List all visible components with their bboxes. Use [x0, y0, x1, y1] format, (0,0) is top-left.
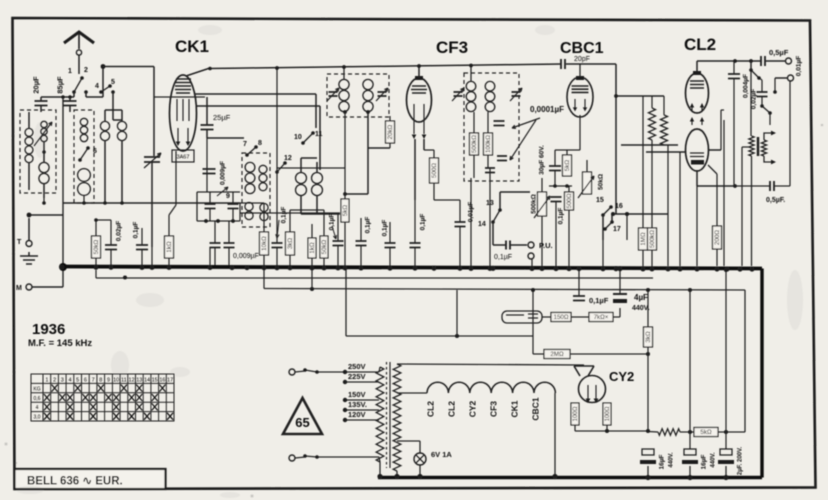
- wire heater end: [554, 393, 556, 476]
- svg-text:7kΩ×: 7kΩ×: [594, 314, 609, 321]
- wire 01b2 up: [360, 218, 362, 241]
- wire osc h168: [277, 167, 345, 169]
- svg-text:20pF: 20pF: [574, 56, 590, 63]
- tap 120V: [343, 418, 347, 422]
- bus junction x556: [553, 266, 558, 271]
- wire L7 top: [121, 110, 123, 121]
- svg-text:5kΩ: 5kΩ: [564, 160, 571, 172]
- wire tone mid2: [761, 80, 763, 92]
- capacitor 0.1 b4: [410, 243, 421, 248]
- wire 009b1 dn: [214, 248, 216, 266]
- antenna coil box: [20, 110, 56, 193]
- wire x668: [667, 145, 669, 266]
- svg-text:T: T: [17, 239, 22, 246]
- resistor 3k ps: [644, 327, 653, 347]
- wire bus drop 471: [470, 178, 472, 266]
- bus junction x111: [108, 265, 113, 270]
- node screen drop: [275, 66, 279, 70]
- svg-text:3: 3: [61, 378, 64, 384]
- wire 85uF top: [69, 97, 71, 101]
- bus junction x324: [321, 265, 326, 270]
- wire CY2 k b: [606, 425, 608, 431]
- wire tone e: [769, 113, 771, 125]
- wire tone b dn: [774, 78, 776, 92]
- wire CF3 k1: [414, 139, 416, 200]
- wire 009b2 up: [228, 221, 230, 243]
- tone switch 1: [751, 70, 759, 78]
- node 85uF: [68, 95, 72, 99]
- IFT2 primary: [470, 81, 472, 82]
- coil L7: [121, 121, 123, 122]
- wire 3k dn: [289, 255, 291, 266]
- bus junction x697: [694, 266, 699, 271]
- tuning capacitor C1: [144, 157, 160, 162]
- wire 01b1 up: [337, 214, 339, 241]
- wire OSC4 feed: [319, 106, 321, 170]
- wire mains a2: [317, 371, 345, 373]
- svg-text:500kΩ: 500kΩ: [531, 194, 538, 214]
- wire 002b up: [110, 220, 112, 245]
- wire x742: [741, 147, 743, 266]
- wire x721b: [721, 109, 724, 111]
- bus junction x210: [207, 265, 212, 270]
- wire B corner: [744, 290, 746, 432]
- svg-text:100kΩ: 100kΩ: [485, 135, 492, 153]
- resistor zig 1: [649, 108, 656, 140]
- wire x346 drop: [345, 270, 347, 336]
- svg-text:1MΩ: 1MΩ: [640, 232, 647, 246]
- node IFT1 outdot: [366, 110, 370, 114]
- bus junction x603: [600, 266, 605, 271]
- resistor 1k CK1: [165, 236, 174, 258]
- wire 01b1 dn: [337, 246, 339, 267]
- wire left rail: [62, 97, 64, 287]
- wire L2-L3: [43, 142, 45, 162]
- tube CL2 lower: [686, 129, 709, 171]
- wire sec top: [396, 363, 398, 365]
- capacitor 0.1 left: [136, 245, 148, 250]
- node padder b: [216, 219, 220, 223]
- bus junction x415: [412, 265, 417, 270]
- svg-text:0,01µF: 0,01µF: [796, 56, 803, 76]
- wire 01b4 up: [414, 200, 416, 243]
- tap 225V: [343, 380, 347, 384]
- node k a: [553, 184, 557, 188]
- svg-text:3kΩ: 3kΩ: [287, 238, 294, 250]
- ground bus: [62, 267, 762, 269]
- wire zig feed line: [616, 95, 664, 97]
- wire C1 down: [151, 162, 153, 247]
- wire tone d: [761, 97, 763, 107]
- svg-text:1936: 1936: [32, 321, 65, 338]
- coil L4: [83, 118, 85, 119]
- wire 500 up: [433, 150, 435, 158]
- wire grid line: [621, 144, 678, 146]
- resistor 100 b: [603, 403, 611, 425]
- tube CY2 top: [574, 366, 594, 376]
- wire L1 bot: [28, 163, 30, 190]
- node coil bus c: [42, 201, 46, 205]
- svg-text:30µF 60V.: 30µF 60V.: [539, 145, 546, 175]
- switch S2 lever: [101, 86, 110, 92]
- capacitor PU 0.1: [506, 241, 510, 250]
- IFT1 primary: [343, 79, 345, 80]
- IF transformer 2 box: [464, 73, 519, 181]
- svg-text:50kΩ: 50kΩ: [93, 239, 100, 254]
- node padder c: [231, 219, 235, 223]
- wire tone f: [733, 94, 735, 186]
- svg-text:100Ω: 100Ω: [572, 406, 579, 421]
- tone switch 3: [762, 106, 770, 113]
- svg-text:6: 6: [84, 378, 87, 384]
- wire bus drop 490: [489, 168, 491, 266]
- wire OSC3 down: [300, 196, 302, 214]
- svg-text:3A67: 3A67: [177, 155, 190, 161]
- wire avc line mid: [240, 212, 340, 214]
- wire padder rail bot: [197, 220, 240, 222]
- svg-text:CBC1: CBC1: [531, 397, 541, 420]
- contact 2 dot: [84, 90, 88, 94]
- wire 500k up: [651, 152, 653, 228]
- wire 30uF up: [554, 150, 556, 166]
- svg-text:0,6: 0,6: [34, 396, 41, 402]
- IFT1 arrow 1: [327, 88, 339, 101]
- wire screen drop: [276, 68, 278, 226]
- bus junction x264: [261, 265, 266, 270]
- wire CF3 top: [418, 66, 420, 78]
- wire 500 dn: [433, 183, 435, 200]
- wire IFT1 out: [367, 112, 369, 194]
- bus junction x434: [431, 266, 436, 271]
- wire L6 L7 top link: [105, 109, 122, 111]
- diode cap 1: [497, 156, 507, 161]
- wire 150-7k: [571, 316, 589, 318]
- wire bus drop 152: [151, 247, 153, 266]
- svg-text:225V: 225V: [348, 372, 366, 381]
- coil L5: [83, 168, 85, 169]
- wire 1M dn: [642, 250, 644, 266]
- oscillator coil box: [242, 153, 270, 227]
- sub-bus line B drop: [263, 270, 265, 289]
- wire 002b dn: [110, 250, 112, 267]
- wire mid h2: [239, 203, 241, 221]
- svg-text:1kΩ: 1kΩ: [166, 241, 173, 253]
- resistor 15: [308, 238, 316, 258]
- sub-bus line A: [96, 277, 653, 279]
- wire tone down a: [750, 61, 752, 70]
- IFT1 trimmer 1: [329, 92, 338, 96]
- pointer 0.0001 a: [512, 118, 540, 128]
- band switch 10-11: [303, 133, 313, 143]
- capacitor 0.1 b1: [333, 241, 344, 246]
- wire 01L dn: [141, 250, 143, 267]
- IFT2 trimmer 1: [454, 92, 463, 96]
- bus junction x717: [714, 266, 719, 271]
- wire to gang: [103, 66, 154, 68]
- wire heater start: [397, 392, 427, 394]
- svg-text:440V.: 440V.: [711, 452, 717, 467]
- wire ecap b dn: [689, 466, 691, 477]
- wire tap 150V: [345, 399, 379, 401]
- node k b: [565, 184, 569, 188]
- capacitor 20uF: [35, 101, 48, 106]
- wire prim bot drop: [379, 462, 381, 476]
- svg-text:12: 12: [129, 378, 135, 384]
- bus junction x616: [613, 266, 618, 271]
- pot arrow 50k: [578, 176, 594, 198]
- node zig feed: [614, 94, 618, 98]
- wire 2M right: [570, 353, 648, 355]
- wire filt a: [648, 431, 658, 434]
- transformer primary: [376, 367, 384, 462]
- wire padder rail top: [197, 191, 240, 193]
- pointer 0.1 left: [276, 220, 279, 238]
- bus junction x247: [244, 265, 249, 270]
- svg-text:6V 1A: 6V 1A: [431, 450, 452, 459]
- node sw: [101, 64, 106, 69]
- node CF3 top: [417, 64, 421, 68]
- wire tone mid: [759, 78, 762, 80]
- svg-text:16µF: 16µF: [659, 455, 666, 470]
- node CL2 plate b: [749, 59, 753, 63]
- wire 01kc dn: [555, 202, 557, 267]
- wire r20k dn: [389, 143, 391, 148]
- node CK1 top: [208, 67, 212, 71]
- tube CK1 cathode arrows: [178, 128, 188, 142]
- resistor 7k lamp: [589, 313, 613, 322]
- wire IFT2 in: [470, 66, 472, 82]
- wire 30uF dn: [554, 171, 556, 187]
- node ecap b: [687, 475, 692, 480]
- wire CK1 plate line: [210, 64, 561, 69]
- svg-text:17: 17: [167, 378, 173, 384]
- wire IFT1 in: [343, 67, 345, 79]
- wire x648 mid: [647, 347, 649, 431]
- node coil bus a: [103, 201, 107, 205]
- svg-text:9: 9: [107, 378, 110, 384]
- wire stub L3: [43, 198, 45, 203]
- coil OSC2a: [248, 202, 250, 203]
- trimmer arrow L2: [34, 122, 52, 146]
- svg-text:5kΩ: 5kΩ: [700, 429, 712, 436]
- wire 01L up: [141, 228, 143, 245]
- wire mid h4: [290, 209, 324, 211]
- wire CBC1 top: [579, 64, 581, 77]
- wire 05b right: [774, 185, 790, 187]
- capacitor 25uF: [201, 125, 214, 130]
- svg-text:500Ω: 500Ω: [566, 193, 573, 208]
- svg-text:0,02µF: 0,02µF: [751, 89, 758, 109]
- svg-text:14: 14: [478, 221, 486, 228]
- node line B 690: [688, 288, 692, 292]
- wire 001 up: [459, 200, 461, 222]
- resistor filter: [658, 429, 680, 435]
- resistor 500k IFT2: [470, 133, 479, 155]
- IF transformer 1 box: [327, 74, 389, 117]
- wire HT line: [397, 364, 584, 365]
- title box: [15, 469, 166, 489]
- svg-text:0,0001µF: 0,0001µF: [530, 105, 564, 114]
- node bias: [94, 218, 98, 222]
- wire grid line 2: [646, 151, 686, 153]
- svg-text:CY2: CY2: [609, 369, 634, 384]
- wire T link: [29, 214, 63, 216]
- wire bus drop 697: [696, 186, 698, 266]
- svg-text:10kΩ: 10kΩ: [261, 236, 268, 251]
- wire L3 bot: [43, 184, 45, 198]
- coil L6: [104, 121, 106, 122]
- triangle 65 mark: [283, 398, 322, 434]
- wire 17 down2: [626, 214, 628, 240]
- wire OT down: [751, 156, 753, 266]
- wire bus drop 210: [209, 247, 211, 266]
- wire 009b2 dn: [228, 248, 230, 266]
- wire tap 120V: [345, 419, 379, 421]
- bus junction x668: [665, 266, 670, 271]
- svg-text:4: 4: [36, 405, 39, 411]
- pot arrow 500k: [534, 196, 550, 218]
- bus junction x277: [274, 265, 279, 270]
- bus junction x62: [59, 264, 64, 269]
- wire tap 135V.: [345, 409, 379, 411]
- tube CY2: [579, 376, 606, 403]
- wire zigs down a: [651, 140, 653, 152]
- wire pot dn: [541, 216, 543, 266]
- wire lamp-150: [542, 316, 551, 318]
- resistor zig 2: [661, 115, 668, 145]
- svg-text:0,5µF.: 0,5µF.: [766, 197, 785, 204]
- wire k link2: [549, 185, 572, 187]
- wire 20k link: [368, 147, 390, 149]
- capacitor 0.1 ps: [573, 296, 585, 301]
- svg-text:2µF. 200V.: 2µF. 200V.: [738, 447, 744, 476]
- capacitor 0.1 b2: [356, 241, 367, 246]
- wire CL2 cap: [696, 61, 698, 74]
- wire prim top: [379, 367, 380, 372]
- node avc 457: [455, 334, 459, 338]
- svg-text:20µF: 20µF: [32, 76, 41, 94]
- wire 16 line: [612, 213, 668, 215]
- svg-text:16µF: 16µF: [701, 455, 708, 470]
- tap 150V: [343, 398, 347, 402]
- transformer secondary: [393, 364, 401, 471]
- wire zig top b: [663, 96, 665, 115]
- svg-text:65: 65: [295, 415, 309, 430]
- wire osc feed: [323, 210, 325, 214]
- IFT1 trimmer 2: [378, 92, 387, 96]
- svg-text:0,1µF: 0,1µF: [281, 207, 288, 224]
- wire zig top a: [651, 96, 653, 108]
- svg-text:4µF: 4µF: [634, 293, 648, 302]
- node left rail top: [61, 95, 65, 99]
- svg-text:0,1µF: 0,1µF: [589, 296, 609, 305]
- wire osc link top: [301, 157, 317, 159]
- svg-text:3,0: 3,0: [34, 415, 41, 421]
- svg-text:CBC1: CBC1: [560, 40, 604, 57]
- wire prim bot: [379, 457, 380, 462]
- node osc mid: [343, 192, 347, 196]
- bus junction x643: [640, 266, 645, 271]
- wire x312 drop: [311, 270, 313, 289]
- svg-text:5: 5: [76, 378, 79, 384]
- mains terminal b: [289, 455, 295, 461]
- wire x579 drop: [578, 270, 580, 296]
- HT bus right: [760, 269, 763, 478]
- wire 14 dn: [492, 222, 494, 245]
- node sec bot: [394, 474, 399, 479]
- node x533: [531, 288, 535, 292]
- resistor 1M: [639, 228, 648, 250]
- wire mid h9: [434, 199, 460, 201]
- bus junction x312: [309, 265, 314, 270]
- wire x724: [723, 120, 725, 266]
- svg-text:10: 10: [294, 134, 302, 141]
- wire 500 up: [568, 186, 570, 192]
- svg-text:3kΩ: 3kΩ: [645, 331, 652, 343]
- node IFT1 indot2: [343, 110, 347, 114]
- svg-text:CL2: CL2: [447, 401, 457, 417]
- wire 25uF up: [206, 97, 208, 125]
- wire CK1 top diag: [186, 68, 210, 76]
- terminal PU a: [528, 242, 534, 248]
- wire 20pF right: [566, 63, 616, 65]
- svg-text:7: 7: [243, 141, 247, 148]
- resistor 20k: [386, 121, 395, 143]
- svg-text:M.F. = 145 kHz: M.F. = 145 kHz: [28, 338, 92, 349]
- tube CF3: [407, 78, 432, 122]
- heater bus bottom: [378, 476, 762, 479]
- wire 200 up: [716, 174, 718, 226]
- IFT2 coupling cap: [494, 121, 505, 126]
- RF coil box: [74, 110, 94, 203]
- svg-text:P.U.: P.U.: [539, 241, 553, 250]
- svg-text:BELL 636 ∿ EUR.: BELL 636 ∿ EUR.: [27, 476, 123, 488]
- wire osc out: [317, 213, 340, 215]
- svg-text:500kΩ: 500kΩ: [471, 135, 478, 153]
- wire 17 dn: [611, 214, 613, 222]
- node tone cap: [773, 90, 777, 94]
- resistor 10k: [260, 232, 269, 255]
- wave switch contact 3: [80, 148, 88, 160]
- output transformer primary: [749, 136, 754, 156]
- wire mains b: [295, 457, 305, 458]
- wire OSC3 up: [300, 158, 302, 172]
- wire OSC4 up: [316, 162, 318, 172]
- gang arrow C1: [144, 153, 161, 168]
- tube CK1 base: [172, 150, 194, 162]
- mains switch b: [305, 456, 317, 457]
- wire sw right: [85, 92, 87, 97]
- wire 009b1 up: [214, 221, 216, 243]
- coil OSC2b: [263, 203, 265, 204]
- wire 05 right: [765, 60, 785, 62]
- bus junction x390: [387, 265, 392, 270]
- wire coil bus: [63, 202, 240, 204]
- coil OSC1a: [249, 162, 251, 163]
- wire 5ksg up: [344, 112, 346, 199]
- wire 50k bias up: [95, 220, 97, 236]
- node 16 a: [611, 212, 615, 216]
- wire 5k up: [566, 150, 568, 155]
- coil OSC4: [316, 172, 318, 173]
- potentiometer 50k: [583, 172, 592, 194]
- coil OSC3: [300, 172, 302, 173]
- IFT2 secondary: [489, 81, 491, 82]
- resistor 500 CBC1: [565, 192, 574, 210]
- capacitor 0.1 b3: [385, 243, 396, 248]
- wire IFT2 dn3: [473, 155, 475, 178]
- capacitor 20pF: [561, 59, 565, 69]
